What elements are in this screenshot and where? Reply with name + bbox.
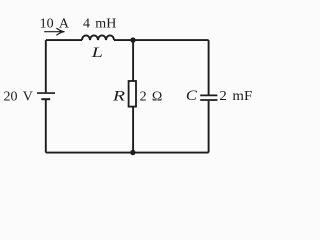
svg-text:4 mH: 4 mH [83, 16, 116, 31]
svg-text:2 mF: 2 mF [219, 89, 252, 104]
svg-text:R: R [112, 87, 126, 104]
svg-text:C: C [186, 88, 198, 104]
svg-text:L: L [90, 43, 103, 60]
svg-text:10 A: 10 A [40, 16, 70, 31]
svg-text:20 V: 20 V [4, 89, 33, 104]
svg-text:2 Ω: 2 Ω [140, 90, 163, 105]
